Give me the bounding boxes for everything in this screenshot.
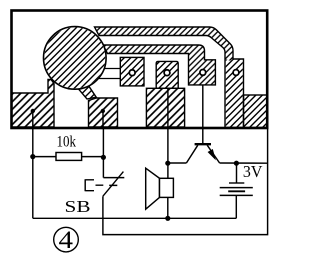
svg-text:3V: 3V: [243, 162, 263, 181]
svg-text:SB: SB: [65, 197, 91, 216]
svg-text:4: 4: [59, 225, 74, 254]
svg-text:10k: 10k: [57, 133, 77, 150]
